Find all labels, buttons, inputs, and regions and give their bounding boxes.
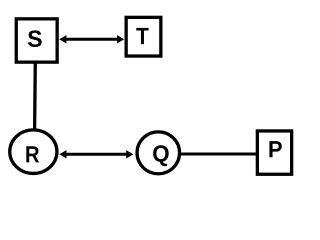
wire: double-headed arrow R <-> Q xyxy=(59,150,133,158)
node Q (ellipse) xyxy=(137,132,180,174)
wire: plain line S to R xyxy=(33,62,37,130)
node T (square box) xyxy=(126,17,161,56)
node S (square box) xyxy=(16,19,57,62)
node P (square box) xyxy=(257,131,291,174)
node R (ellipse) xyxy=(10,130,57,174)
wire: double-headed arrow S <-> T xyxy=(59,35,124,43)
wire: plain line Q to P xyxy=(181,152,259,155)
